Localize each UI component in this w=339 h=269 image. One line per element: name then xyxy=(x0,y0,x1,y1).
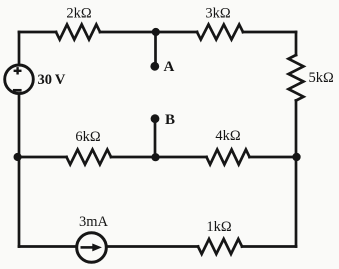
voltage source minus sign xyxy=(13,89,22,92)
svg-text:B: B xyxy=(165,112,175,128)
wire left side lower segment xyxy=(18,157,21,247)
junction middle rail right xyxy=(292,153,300,161)
wire stub node A xyxy=(154,32,157,64)
svg-text:30 V: 30 V xyxy=(38,72,66,88)
wire middle rail center segment xyxy=(111,156,207,159)
wire bottom rail right segment xyxy=(242,245,296,248)
svg-text:5kΩ: 5kΩ xyxy=(309,70,335,86)
wire right side lower segment xyxy=(295,157,298,247)
resistor R 6k zigzag xyxy=(67,150,112,165)
voltage source plus sign xyxy=(14,67,22,74)
svg-text:4kΩ: 4kΩ xyxy=(215,128,241,144)
wire middle rail left segment xyxy=(19,156,67,159)
voltage source V1 30V circle xyxy=(5,65,34,94)
svg-text:A: A xyxy=(164,59,175,75)
resistor R 2k zigzag xyxy=(56,25,100,40)
wire bottom rail left segment xyxy=(19,245,76,248)
wire top rail right segment xyxy=(243,31,296,34)
svg-text:3kΩ: 3kΩ xyxy=(205,6,231,22)
wire bottom rail middle segment xyxy=(107,245,198,248)
wire top rail middle segment xyxy=(100,31,197,34)
current source arrow xyxy=(81,244,101,250)
svg-text:6kΩ: 6kΩ xyxy=(75,129,101,145)
resistor R 5k zigzag xyxy=(289,55,304,101)
resistor R 3k zigzag xyxy=(197,25,243,40)
junction top rail above A xyxy=(152,28,160,36)
node A terminal dot xyxy=(150,62,159,71)
wire left side middle segment xyxy=(18,95,21,157)
junction middle rail below B xyxy=(151,153,159,161)
wire top rail left segment xyxy=(19,31,56,34)
svg-text:1kΩ: 1kΩ xyxy=(206,219,232,235)
wire stub node B xyxy=(154,120,157,157)
current source I1 3mA circle xyxy=(77,233,107,263)
junction middle rail left xyxy=(14,153,22,161)
svg-text:3mA: 3mA xyxy=(79,214,109,230)
wire right side upper segment xyxy=(295,32,298,55)
wire right side middle segment xyxy=(295,101,298,158)
wire left side upper segment xyxy=(18,32,21,64)
node B terminal dot xyxy=(151,114,160,123)
svg-text:2kΩ: 2kΩ xyxy=(66,6,92,22)
resistor R 4k zigzag xyxy=(207,150,250,165)
wire middle rail right segment xyxy=(250,156,297,159)
resistor R 1k zigzag xyxy=(198,239,242,254)
